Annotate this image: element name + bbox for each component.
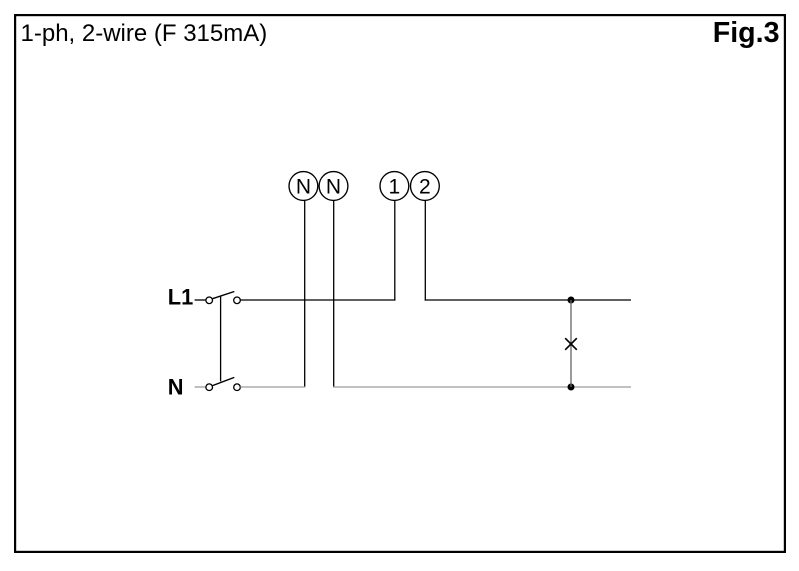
switch S1 pole N: blade (213, 377, 235, 385)
terminal 2 (411, 172, 440, 201)
wire N from terminal N (second) drop to right end (333, 386, 631, 388)
terminal N (first) (289, 172, 318, 201)
switch S1 mechanical linkage (220, 296, 222, 381)
wire L1 lead-in (195, 299, 206, 301)
wire from terminal 2 down to L1 level (424, 201, 426, 301)
switch S1 pole L1: right contact (234, 297, 241, 304)
svg-text:L1: L1 (168, 285, 193, 310)
wire L1 from switch to terminal 1 drop (240, 299, 395, 301)
wire N lead-in (195, 386, 206, 388)
svg-text:Fig.3: Fig.3 (713, 17, 780, 49)
switch S1 pole L1: blade (213, 292, 235, 299)
svg-text:1: 1 (389, 175, 401, 198)
junction dot on neutral line (568, 384, 575, 391)
wire N from switch to terminal N (first) drop (240, 386, 305, 388)
wire from terminal 2 drop to lamp node (425, 299, 631, 301)
junction dot on live line (568, 297, 575, 304)
wire lamp branch vertical (570, 300, 572, 387)
switch S1 pole N: left contact (206, 384, 213, 391)
switch S1 pole N: right contact (234, 384, 241, 391)
wire from terminal N (second) down to N line (333, 201, 335, 387)
switch S1 pole L1: left contact (206, 297, 213, 304)
svg-text:N: N (168, 375, 184, 400)
svg-text:N: N (296, 175, 311, 198)
terminal 1 (380, 172, 409, 201)
svg-text:1-ph, 2-wire (F 315mA): 1-ph, 2-wire (F 315mA) (21, 20, 268, 47)
wire from terminal N (first) down to N line (304, 201, 306, 387)
svg-text:2: 2 (419, 175, 431, 198)
svg-text:N: N (326, 175, 341, 198)
lamp E1 (cross symbol) (565, 338, 577, 350)
terminal N (second) (319, 172, 348, 201)
wire from terminal 1 down to L1 line (394, 201, 396, 301)
